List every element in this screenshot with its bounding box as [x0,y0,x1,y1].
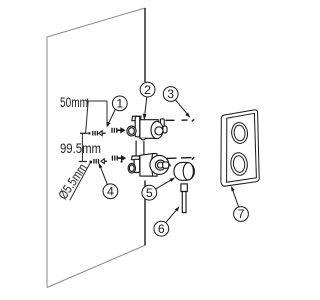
wall panel [47,8,145,288]
lower valve body [121,153,171,176]
inlet ring [128,163,135,173]
cap part 5 [174,162,194,180]
fitting dot [121,161,123,163]
flange top block [132,156,140,160]
dashed line upper outlet [166,119,195,121]
top stub [160,119,164,127]
callout 1 [107,96,127,127]
inlet ring [127,126,136,136]
body end ellipse [151,121,163,138]
svg-text:99.5mm: 99.5mm [60,141,101,156]
screw lower-right [112,156,125,161]
callout 3 [163,87,189,117]
callout 2 [140,82,155,119]
flange plate [135,116,140,136]
hole point lower [90,161,92,163]
wall right edge [144,8,146,246]
knob right [163,126,167,133]
dimension 99.5mm [79,133,88,161]
svg-text:6: 6 [158,222,165,236]
callout 4 [99,164,118,199]
dashed line lower outlet [167,157,195,160]
trim plate 7 [221,110,259,186]
valve assembly: connecting tube [136,141,144,157]
body block [140,153,157,176]
flange top block [132,116,141,121]
dimension 50mm [86,99,107,134]
svg-text:5: 5 [146,186,153,200]
hole point upper [88,132,90,134]
flange plate [134,159,140,172]
svg-text:1: 1 [116,97,123,111]
svg-text:2: 2 [144,83,151,97]
upper valve body [127,116,167,140]
callout 7 [231,187,248,222]
dimension leader Ø5.5mm [70,162,91,200]
screw lower-left [94,159,107,164]
end cap outer [150,155,169,174]
tube part 6 [181,184,187,213]
svg-text:7: 7 [238,207,245,221]
svg-text:4: 4 [107,185,114,199]
body section line [152,154,153,176]
end cap rings [155,160,165,170]
outlet stub [163,162,169,168]
bottom joint [141,138,146,140]
screw upper-left [93,131,106,136]
svg-text:3: 3 [167,87,174,101]
body block [140,120,158,139]
screw upper-right [112,128,125,133]
end inner circle [155,127,163,135]
callout 6 [154,207,179,236]
svg-text:50mm: 50mm [60,95,88,110]
callout 5 [142,178,174,200]
